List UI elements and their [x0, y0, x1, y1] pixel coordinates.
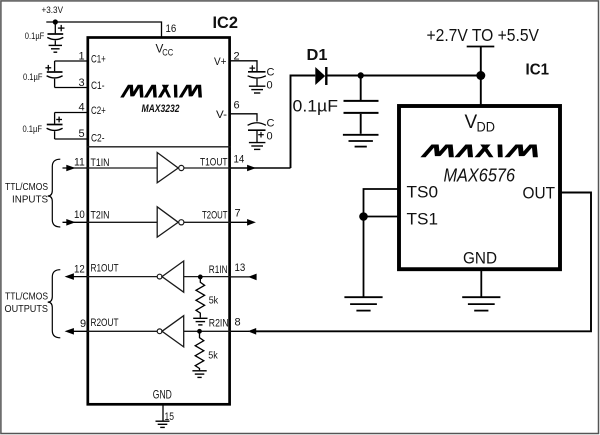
wire pin 3 C1- — [55, 87, 87, 89]
ground for V+ cap — [249, 86, 266, 93]
MAXIM logo IC1 — [420, 145, 537, 158]
svg-text:14: 14 — [234, 154, 245, 166]
capacitor C2 0.1uF — [47, 113, 63, 140]
IC2 MAX3232 box — [88, 38, 230, 405]
wire TS1 — [364, 216, 400, 218]
svg-text:OUTPUTS: OUTPUTS — [5, 303, 49, 315]
svg-text:8: 8 — [235, 316, 241, 328]
ground for resistor R2 — [192, 371, 206, 378]
ground for IC1 GND — [462, 297, 500, 310]
wire pin 6 V- — [231, 114, 258, 122]
transmitter T2 wire out — [184, 221, 231, 223]
svg-text:IC1: IC1 — [526, 62, 550, 79]
svg-text:+3.3V: +3.3V — [42, 5, 64, 16]
svg-text:7: 7 — [235, 208, 241, 220]
svg-text:INPUTS: INPUTS — [12, 194, 48, 206]
svg-text:C2+: C2+ — [91, 105, 106, 117]
wire pin 15 GND — [162, 405, 164, 421]
wire pin 8 R2IN — [231, 330, 250, 332]
receiver R2 wire in — [184, 330, 231, 332]
svg-text:DD: DD — [477, 119, 496, 135]
arrow on T1OUT wire — [247, 165, 256, 172]
IC2 internal divider line — [87, 146, 231, 148]
svg-text:5: 5 — [79, 128, 85, 140]
svg-text:T1IN: T1IN — [91, 157, 110, 169]
MAXIM logo IC2 — [120, 85, 202, 98]
svg-text:0: 0 — [267, 131, 273, 143]
svg-text:0.1µF: 0.1µF — [23, 72, 43, 83]
receiver R1 buffer — [162, 261, 184, 292]
svg-text:T2OUT: T2OUT — [202, 210, 228, 222]
arrow out of pin 12 — [65, 273, 74, 280]
receiver R2 wire out — [87, 330, 157, 332]
wire riser T1OUT to D1 — [291, 76, 316, 169]
svg-text:C2-: C2- — [91, 133, 105, 145]
receiver R1 wire in — [184, 276, 231, 278]
capacitor C1 0.1uF — [45, 61, 62, 88]
transmitter T2 wire in — [87, 221, 157, 223]
transmitter T1 wire in — [87, 167, 157, 169]
svg-text:D1: D1 — [307, 47, 328, 64]
receiver R1 bubble — [157, 274, 162, 279]
wire pin 10 T2IN — [63, 221, 88, 223]
arrow on T2OUT wire — [247, 219, 256, 226]
svg-text:MAX6576: MAX6576 — [444, 165, 516, 186]
svg-text:T1OUT: T1OUT — [200, 157, 228, 169]
wire pin 4 C2+ — [55, 112, 87, 114]
svg-text:0.1µF: 0.1µF — [25, 31, 45, 42]
svg-text:R1IN: R1IN — [209, 264, 228, 276]
svg-text:GND: GND — [463, 250, 497, 268]
svg-text:GND: GND — [153, 388, 172, 402]
svg-text:0.1µF: 0.1µF — [23, 124, 43, 135]
receiver R1 wire out — [87, 276, 157, 278]
wire +3.3V rail to pin 16 — [46, 22, 161, 37]
brace inputs — [48, 159, 61, 227]
svg-text:11: 11 — [74, 157, 85, 169]
svg-text:5k: 5k — [209, 296, 219, 307]
capacitor at V- — [248, 123, 266, 142]
svg-text:10: 10 — [74, 209, 85, 221]
junction node TS — [359, 212, 368, 221]
ground for V- cap — [249, 143, 266, 150]
IC1 MAX6576 box — [399, 106, 560, 269]
wire pin 5 C2- — [55, 138, 87, 140]
svg-text:16: 16 — [166, 23, 177, 35]
arrow into pin 13 — [248, 274, 257, 281]
wire D1 cathode to junction — [328, 75, 481, 77]
svg-text:OUT: OUT — [523, 185, 556, 203]
wire pin 7 T2OUT — [231, 221, 250, 223]
svg-text:4: 4 — [79, 102, 85, 114]
wire pin 1 C1+ — [55, 60, 87, 62]
svg-text:R1OUT: R1OUT — [91, 263, 119, 275]
svg-text:13: 13 — [235, 262, 246, 274]
svg-text:C1+: C1+ — [91, 54, 106, 66]
ground for TS pins — [344, 297, 382, 310]
capacitor 0.1uF bypass at +3.3V — [47, 22, 64, 45]
svg-text:C: C — [267, 67, 275, 79]
svg-text:R2OUT: R2OUT — [91, 317, 119, 329]
junction node at +3.3V — [53, 19, 58, 24]
wire pin 11 T1IN — [63, 167, 88, 169]
svg-text:TS1: TS1 — [407, 211, 439, 229]
ground for IC2 pin 15 — [156, 421, 170, 427]
ground for bypass cap — [49, 45, 62, 52]
svg-text:CC: CC — [162, 48, 174, 58]
svg-text:0: 0 — [267, 80, 273, 92]
transmitter T1 wire out — [184, 167, 231, 169]
svg-text:+2.7V TO +5.5V: +2.7V TO +5.5V — [427, 25, 540, 45]
junction node at 0.1uF cap — [358, 72, 364, 78]
junction node at VDD — [476, 71, 485, 80]
wire pin 13 R1IN — [231, 276, 251, 278]
wire TS junction to ground — [363, 217, 365, 297]
wire pin 12 R1OUT — [70, 276, 87, 278]
junction node R2IN — [197, 329, 202, 334]
receiver R2 buffer — [162, 316, 184, 347]
resistor R1 5k — [196, 277, 205, 318]
wire GND pin IC1 — [480, 269, 482, 297]
wire supply to VDD — [480, 47, 482, 106]
capacitor at V+ — [248, 65, 266, 85]
svg-text:V+: V+ — [214, 56, 227, 68]
svg-text:TS0: TS0 — [407, 184, 439, 202]
ground for resistor R1 — [193, 318, 207, 325]
arrow out of pin 9 — [65, 328, 74, 335]
svg-text:IC2: IC2 — [213, 14, 239, 32]
svg-text:9: 9 — [80, 318, 86, 330]
wire OUT to R2IN — [256, 193, 591, 332]
svg-text:C1-: C1- — [91, 80, 105, 92]
diode D1 — [315, 67, 326, 85]
svg-text:T2IN: T2IN — [91, 210, 110, 222]
svg-text:6: 6 — [234, 100, 240, 112]
wire TS0 — [364, 189, 400, 217]
arrow into pin 11 — [66, 165, 75, 172]
junction node R1IN — [198, 275, 203, 280]
transmitter T2 bubble — [179, 220, 184, 225]
svg-text:5k: 5k — [208, 351, 218, 362]
ground for 0.1uF cap — [343, 135, 379, 147]
transmitter T1 buffer — [157, 153, 178, 183]
svg-text:TTL/CMOS: TTL/CMOS — [5, 291, 48, 303]
svg-text:C: C — [267, 118, 275, 130]
transmitter T2 buffer — [157, 207, 178, 237]
capacitor 0.1uF at D1 — [344, 76, 379, 134]
arrow into pin 8 — [248, 328, 257, 335]
supply T-bar — [467, 46, 495, 48]
svg-text:0.1µF: 0.1µF — [293, 97, 339, 116]
arrow into pin 10 — [66, 219, 75, 226]
svg-text:V-: V- — [216, 109, 227, 121]
svg-text:12: 12 — [74, 264, 85, 276]
brace outputs — [48, 270, 61, 338]
svg-text:TTL/CMOS: TTL/CMOS — [5, 181, 48, 193]
transmitter T1 bubble — [179, 165, 184, 170]
wire pin 9 R2OUT — [70, 330, 87, 332]
wire pin 2 V+ — [231, 61, 258, 71]
receiver R2 bubble — [157, 329, 162, 334]
svg-text:R2IN: R2IN — [209, 318, 229, 330]
wire pin 14 T1OUT — [231, 167, 291, 169]
resistor R2 5k — [195, 331, 204, 370]
svg-text:MAX3232: MAX3232 — [142, 103, 180, 115]
